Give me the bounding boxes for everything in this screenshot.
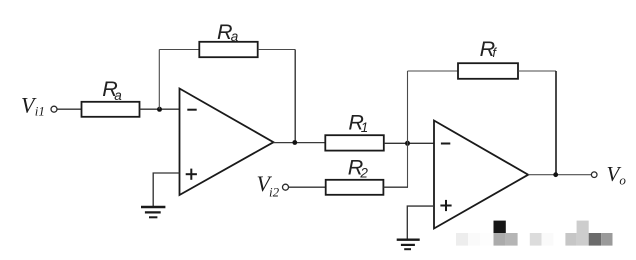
label Ra input (102, 77, 122, 103)
watermark pixel squares (456, 221, 613, 246)
terminal Vi2 (283, 184, 289, 190)
node junction dot U1 output (292, 140, 297, 145)
wire feedback vertical right (294, 50, 296, 143)
label Vi1 (21, 92, 45, 118)
resistor R1 box (325, 135, 384, 150)
svg-text:i1: i1 (35, 104, 45, 119)
wire feedback top left (159, 49, 199, 51)
node junction dot U2 output (553, 172, 558, 177)
wire U1 non-inverting to ground (153, 173, 179, 207)
svg-text:f: f (492, 45, 497, 60)
wire Rf top left (408, 70, 459, 72)
wire R2 to vertical node (383, 186, 408, 188)
node junction dot U2 inverting (405, 141, 410, 146)
wire U1 output (274, 142, 326, 144)
svg-text:1: 1 (361, 120, 369, 135)
wire feedback vertical left (158, 50, 160, 110)
wire Ra to opamp inverting input (140, 108, 180, 110)
terminal Vi1 (51, 106, 57, 112)
wire Rf top right (518, 70, 556, 72)
U1 plus sign (186, 169, 197, 180)
svg-text:o: o (619, 172, 626, 187)
U1 minus sign (187, 109, 196, 111)
node junction dot at inverting input (157, 107, 162, 112)
resistor R2 box (326, 180, 384, 195)
terminal Vo (591, 172, 597, 178)
svg-text:i2: i2 (269, 185, 280, 200)
label Vi2 (257, 171, 280, 200)
wire Vi1 to Ra (58, 108, 82, 110)
svg-text:a: a (231, 29, 239, 44)
wire Rf left vertical (407, 71, 409, 187)
wire U2 output (528, 174, 591, 176)
label R1 (348, 110, 368, 135)
wire U2 non-inverting to ground (407, 206, 434, 239)
U2 plus sign (440, 200, 451, 211)
wire Rf right vertical (555, 71, 557, 175)
wire R1 to U2 inverting input (384, 142, 434, 144)
resistor Ra feedback box (199, 42, 257, 57)
label Vo (607, 162, 627, 187)
label Ra feedback (217, 20, 239, 44)
ground U1 (141, 207, 165, 217)
wire Vi2 to R2 (289, 186, 326, 188)
ground U2 (397, 240, 420, 250)
U2 minus sign (441, 143, 450, 145)
op-amp U1 triangle (180, 89, 274, 196)
wire feedback top right (258, 49, 296, 51)
label R2 (348, 155, 369, 180)
resistor Rf box (458, 63, 518, 79)
resistor Ra input box (82, 102, 140, 117)
svg-text:2: 2 (359, 165, 368, 180)
label Rf (480, 37, 498, 61)
op-amp U2 triangle (434, 121, 528, 229)
svg-text:a: a (114, 88, 122, 103)
